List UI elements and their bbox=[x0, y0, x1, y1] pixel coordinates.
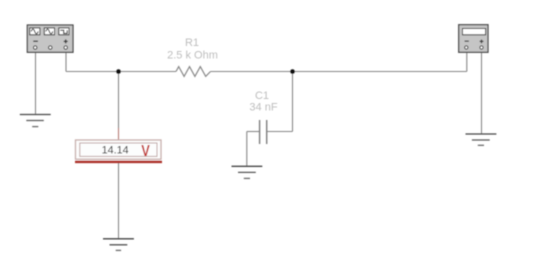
function generator XFG1 bbox=[27, 25, 73, 52]
wire: capacitor lead down to ground bbox=[246, 132, 248, 167]
wire: FG right terminal down to main net bbox=[65, 52, 67, 72]
wire: main net segment R1 to multimeter bbox=[211, 71, 467, 73]
svg-text:14.14: 14.14 bbox=[102, 145, 129, 157]
voltmeter probe display bbox=[75, 140, 162, 162]
wire: capacitor right lead bbox=[267, 131, 293, 133]
ground (below function generator) bbox=[20, 115, 51, 127]
wire: main net segment FG to R1 bbox=[66, 71, 176, 73]
wire: node B down to capacitor bbox=[292, 72, 294, 132]
wire: capacitor left lead bbox=[247, 131, 260, 133]
wire: red probe segment into voltmeter bbox=[118, 128, 120, 140]
ground (below capacitor C1) bbox=[232, 166, 263, 178]
capacitor C1 bbox=[260, 120, 267, 144]
ground (below voltmeter) bbox=[103, 239, 134, 251]
wire: FG left terminal to ground bbox=[35, 52, 37, 114]
svg-text:V: V bbox=[141, 143, 150, 160]
svg-text:34 nF: 34 nF bbox=[249, 102, 277, 114]
wire: voltmeter to bottom ground bbox=[118, 163, 120, 239]
node A junction dot bbox=[116, 69, 121, 74]
wire: multimeter left terminal down to main net bbox=[466, 52, 468, 72]
ground (below multimeter) bbox=[466, 134, 497, 145]
wire: multimeter right terminal to ground bbox=[481, 52, 483, 134]
svg-text:R1: R1 bbox=[185, 37, 199, 49]
svg-text:2.5 k Ohm: 2.5 k Ohm bbox=[167, 50, 218, 62]
resistor R1 bbox=[176, 67, 211, 77]
multimeter XMM1 bbox=[459, 25, 488, 53]
svg-text:C1: C1 bbox=[255, 90, 269, 102]
node B junction dot bbox=[290, 69, 295, 74]
wire: node A down to voltmeter bbox=[118, 72, 120, 129]
